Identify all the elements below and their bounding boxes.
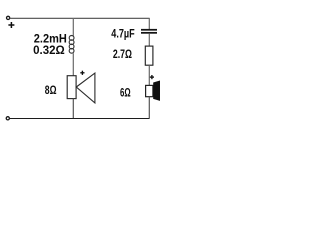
wire: woofer to bottom rail	[72, 99, 74, 119]
wire: drop from top rail to capacitor	[148, 18, 150, 29]
wire: drop from top rail to inductor	[72, 18, 74, 36]
svg-text:4.7µF: 4.7µF	[111, 29, 135, 41]
wire: capacitor to resistor	[148, 34, 150, 47]
svg-text:0.32Ω: 0.32Ω	[33, 44, 65, 57]
speaker (tweeter 6Ω) driver rectangle	[146, 85, 153, 96]
inductor L1 (2.2mH 0.32Ω)	[69, 36, 74, 54]
wire: inductor to woofer	[72, 53, 74, 76]
terminal (top-left input, +)	[7, 16, 10, 19]
capacitor C1 4.7µF (top plate)	[141, 29, 157, 31]
resistor R1 2.7Ω (box)	[145, 46, 153, 65]
wire: resistor to tweeter	[148, 65, 150, 85]
wire: tweeter to bottom rail	[148, 97, 150, 118]
terminal (bottom-left input)	[6, 117, 9, 120]
svg-text:2.7Ω: 2.7Ω	[113, 49, 132, 61]
speaker (woofer 8Ω) driver rectangle	[67, 76, 76, 99]
wire: top rail	[10, 17, 150, 19]
speaker (woofer) horn cone	[76, 73, 95, 103]
+ label (tweeter polarity)	[150, 75, 154, 79]
svg-text:6Ω: 6Ω	[120, 87, 131, 100]
capacitor C1 4.7µF (bottom plate)	[141, 32, 157, 34]
+ label (source positive)	[8, 22, 14, 28]
wire: bottom rail	[9, 118, 149, 120]
speaker (tweeter) horn cone, filled, clipped at image edge	[153, 80, 161, 101]
svg-text:8Ω: 8Ω	[45, 85, 57, 98]
+ label (woofer polarity)	[80, 71, 84, 75]
